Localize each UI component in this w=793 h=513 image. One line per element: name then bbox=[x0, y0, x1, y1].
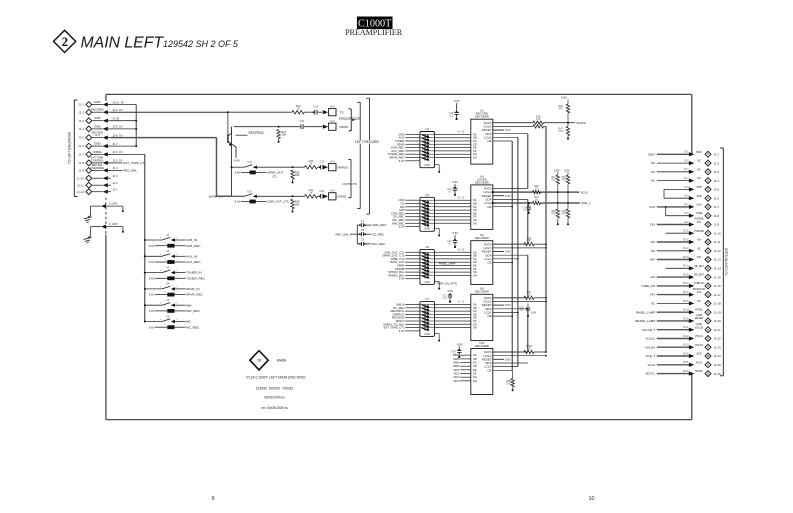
svg-text:15V: 15V bbox=[650, 223, 655, 227]
svg-text:J4-2: J4-2 bbox=[330, 120, 335, 123]
svg-text:J4-3: J4-3 bbox=[330, 190, 335, 193]
svg-text:J2-8 0V: J2-8 0V bbox=[112, 125, 123, 129]
svg-text:+5V: +5V bbox=[650, 240, 655, 244]
svg-text:C26: C26 bbox=[319, 189, 324, 193]
svg-text:5.6V: 5.6V bbox=[505, 357, 511, 361]
svg-text:SCLK: SCLK bbox=[647, 363, 655, 367]
svg-text:5.6V: 5.6V bbox=[457, 342, 463, 346]
svg-text:J1-2: J1-2 bbox=[714, 161, 720, 165]
svg-text:RECPROC: RECPROC bbox=[249, 131, 266, 135]
svg-text:0V 15: 0V 15 bbox=[458, 197, 465, 199]
svg-text:C7: C7 bbox=[361, 219, 365, 223]
svg-text:47K: 47K bbox=[552, 213, 557, 215]
svg-text:J9-13: J9-13 bbox=[683, 256, 690, 259]
svg-text:5.6V: 5.6V bbox=[505, 250, 511, 254]
svg-text:J1-7: J1-7 bbox=[714, 205, 720, 209]
svg-text:J1-25: J1-25 bbox=[714, 363, 722, 367]
svg-text:J1-9: J1-9 bbox=[78, 169, 84, 173]
svg-text:C24: C24 bbox=[314, 105, 319, 109]
svg-text:J1-3: J1-3 bbox=[78, 119, 84, 123]
svg-text:47K: 47K bbox=[559, 108, 564, 111]
svg-text:J1-11: J1-11 bbox=[714, 240, 721, 244]
svg-text:10K: 10K bbox=[506, 382, 511, 385]
svg-text:MC_REC: MC_REC bbox=[186, 325, 200, 329]
svg-text:24V: 24V bbox=[650, 258, 655, 262]
svg-text:J1-10: J1-10 bbox=[77, 176, 85, 180]
svg-text:5.6V: 5.6V bbox=[149, 260, 155, 264]
svg-text:J1-3: J1-3 bbox=[714, 170, 720, 174]
svg-text:J2-6 0V: J2-6 0V bbox=[112, 150, 123, 154]
svg-text:SOE_L: SOE_L bbox=[581, 201, 591, 205]
svg-text:1K: 1K bbox=[535, 199, 538, 202]
svg-text:J1-21: J1-21 bbox=[714, 328, 722, 332]
svg-text:J9-15: J9-15 bbox=[683, 274, 690, 277]
svg-text:SDATA: SDATA bbox=[576, 121, 586, 125]
svg-text:U1: U1 bbox=[425, 127, 429, 131]
svg-text:J1-4: J1-4 bbox=[78, 127, 84, 131]
svg-text:10K: 10K bbox=[295, 202, 300, 206]
svg-text:1K: 1K bbox=[527, 293, 530, 296]
svg-text:PREAMPLIFIER: PREAMPLIFIER bbox=[345, 28, 403, 37]
svg-text:NC: NC bbox=[697, 160, 701, 163]
svg-text:5.6V: 5.6V bbox=[399, 225, 405, 229]
svg-text:CTL: CTL bbox=[272, 175, 277, 179]
svg-text:FROM: FROM bbox=[339, 125, 348, 129]
svg-text:OVERRIDE: OVERRIDE bbox=[91, 166, 105, 170]
svg-text:5.6V: 5.6V bbox=[505, 194, 511, 198]
svg-text:J1-11: J1-11 bbox=[77, 183, 85, 187]
svg-text:SDATA: SDATA bbox=[695, 370, 703, 373]
svg-text:MW: MW bbox=[186, 303, 192, 307]
svg-text:J2-35: J2-35 bbox=[112, 117, 119, 121]
svg-text:J2-1: J2-1 bbox=[112, 188, 118, 192]
svg-text:RECORD: RECORD bbox=[91, 108, 104, 112]
svg-text:500V: 500V bbox=[648, 152, 655, 156]
svg-text:CD5_REC: CD5_REC bbox=[186, 244, 201, 248]
svg-text:5.6V: 5.6V bbox=[235, 200, 241, 204]
svg-text:1K: 1K bbox=[535, 188, 538, 191]
svg-text:CDR_REC: CDR_REC bbox=[372, 223, 387, 227]
svg-text:TO CONTROLLER: TO CONTROLLER bbox=[724, 247, 728, 276]
svg-text:5.6V: 5.6V bbox=[235, 171, 241, 175]
svg-text:SG: SG bbox=[473, 375, 477, 379]
svg-text:R38: R38 bbox=[536, 122, 541, 125]
svg-text:J1-9: J1-9 bbox=[714, 223, 720, 227]
svg-text:47K: 47K bbox=[552, 179, 557, 181]
svg-text:VOLCB_T: VOLCB_T bbox=[642, 328, 656, 332]
svg-text:J2-7: J2-7 bbox=[112, 142, 118, 146]
svg-text:rev 04/05/2005 ks: rev 04/05/2005 ks bbox=[261, 406, 288, 410]
svg-text:J1-17: J1-17 bbox=[714, 293, 722, 297]
svg-text:J9-3: J9-3 bbox=[684, 168, 689, 171]
svg-text:OUT: OUT bbox=[95, 133, 101, 137]
svg-text:NC: NC bbox=[697, 177, 701, 180]
svg-text:DECODER: DECODER bbox=[475, 290, 489, 294]
svg-text:U5: U5 bbox=[425, 245, 429, 249]
svg-text:5.6V: 5.6V bbox=[531, 312, 536, 315]
svg-text:J9-22: J9-22 bbox=[683, 335, 690, 338]
svg-text:0V 15: 0V 15 bbox=[458, 302, 465, 304]
svg-text:J9-10: J9-10 bbox=[683, 230, 690, 233]
svg-text:SH: SH bbox=[473, 273, 477, 277]
svg-text:47K: 47K bbox=[559, 130, 564, 133]
svg-text:C23: C23 bbox=[300, 119, 305, 123]
svg-text:J1-6: J1-6 bbox=[78, 144, 84, 148]
svg-text:J9-23: J9-23 bbox=[683, 344, 690, 347]
svg-text:CDR_OUT_CTL: CDR_OUT_CTL bbox=[267, 200, 289, 204]
svg-text:J1-15: J1-15 bbox=[714, 275, 722, 279]
svg-text:MAIN LEFT: MAIN LEFT bbox=[81, 34, 165, 51]
svg-text:METER_LAMP: METER_LAMP bbox=[635, 319, 655, 323]
svg-text:J9-20: J9-20 bbox=[683, 317, 690, 320]
svg-text:J9-11: J9-11 bbox=[683, 238, 689, 241]
svg-text:AUX_REC: AUX_REC bbox=[186, 260, 201, 264]
svg-text:1K: 1K bbox=[527, 240, 530, 243]
svg-text:5.6V: 5.6V bbox=[149, 293, 155, 297]
svg-text:J1-5: J1-5 bbox=[78, 136, 84, 140]
svg-text:5.6V: 5.6V bbox=[564, 168, 570, 172]
svg-text:PANEL_LAMP: PANEL_LAMP bbox=[439, 261, 456, 265]
svg-text:J9-1: J9-1 bbox=[684, 151, 689, 154]
svg-text:U7: U7 bbox=[425, 297, 429, 301]
svg-text:5.6V: 5.6V bbox=[454, 99, 460, 103]
svg-text:J1-2: J1-2 bbox=[78, 110, 84, 114]
svg-text:0V 15: 0V 15 bbox=[458, 132, 465, 134]
svg-text:GND: GND bbox=[424, 228, 430, 231]
svg-text:2B: 2B bbox=[257, 359, 262, 363]
svg-text:129542 09/1/00 T00081: 129542 09/1/00 T00081 bbox=[256, 387, 294, 391]
svg-text:J9-4: J9-4 bbox=[684, 177, 689, 180]
svg-text:J1-16: J1-16 bbox=[714, 284, 722, 288]
svg-text:J2-10 0V: J2-10 0V bbox=[112, 100, 124, 104]
svg-text:GND: GND bbox=[94, 100, 100, 104]
svg-text:SH: SH bbox=[473, 379, 477, 383]
svg-text:1K: 1K bbox=[309, 162, 312, 166]
svg-text:5.6V: 5.6V bbox=[234, 159, 240, 163]
svg-text:10K: 10K bbox=[281, 133, 286, 137]
svg-text:J9-16: J9-16 bbox=[683, 282, 690, 285]
svg-text:VOLCL: VOLCL bbox=[695, 335, 704, 338]
svg-text:J1-7: J1-7 bbox=[78, 153, 84, 157]
svg-text:CD_REC: CD_REC bbox=[372, 232, 385, 236]
svg-text:BD_DET: BD_DET bbox=[694, 274, 704, 277]
svg-text:5.6V: 5.6V bbox=[696, 204, 701, 207]
svg-text:TUNER_REC: TUNER_REC bbox=[186, 276, 206, 280]
svg-text:SCLK: SCLK bbox=[696, 361, 703, 364]
svg-text:J9-2: J9-2 bbox=[684, 160, 689, 163]
svg-text:J9-12: J9-12 bbox=[683, 247, 690, 250]
svg-text:J1-26: J1-26 bbox=[714, 372, 722, 376]
svg-text:SHB: SHB bbox=[696, 186, 701, 189]
svg-text:MC4: MC4 bbox=[454, 379, 460, 383]
svg-text:MAIN: MAIN bbox=[277, 358, 287, 362]
svg-text:K19: K19 bbox=[247, 161, 252, 164]
svg-text:P129 C1000T LEFT MAIN (RECORD): P129 C1000T LEFT MAIN (RECORD) bbox=[246, 376, 305, 380]
svg-text:J9-6: J9-6 bbox=[684, 195, 689, 198]
svg-text:5.6V: 5.6V bbox=[149, 309, 155, 313]
svg-text:J1-5: J1-5 bbox=[714, 188, 720, 192]
svg-text:J9-21: J9-21 bbox=[683, 326, 690, 329]
svg-text:0V 15: 0V 15 bbox=[458, 250, 465, 252]
svg-text:PROCESSOR: PROCESSOR bbox=[339, 117, 361, 121]
svg-text:+6V: +6V bbox=[650, 275, 655, 279]
svg-text:J2-8 0V: J2-8 0V bbox=[112, 133, 123, 137]
svg-text:U3: U3 bbox=[425, 193, 429, 197]
svg-text:GND: GND bbox=[94, 124, 100, 128]
svg-text:J1-18: J1-18 bbox=[714, 302, 722, 306]
svg-text:GND: GND bbox=[424, 164, 430, 167]
svg-text:J2-4: J2-4 bbox=[112, 166, 118, 170]
svg-text:SD: SD bbox=[473, 364, 477, 368]
svg-text:LEFT RECORD: LEFT RECORD bbox=[355, 140, 379, 144]
svg-text:J_GP1: J_GP1 bbox=[109, 202, 119, 206]
svg-text:SH: SH bbox=[473, 221, 477, 225]
svg-text:J9-8: J9-8 bbox=[684, 212, 689, 215]
svg-text:5.6V: 5.6V bbox=[149, 325, 155, 329]
svg-text:10: 10 bbox=[589, 496, 595, 502]
svg-text:OE: OE bbox=[487, 368, 491, 372]
svg-text:UNBAL: UNBAL bbox=[92, 150, 102, 154]
svg-text:SA: SA bbox=[473, 353, 477, 357]
svg-text:J9-9: J9-9 bbox=[684, 221, 689, 224]
svg-text:OE: OE bbox=[487, 314, 491, 318]
svg-text:SRVR_OUT: SRVR_OUT bbox=[267, 171, 283, 175]
svg-text:CONTROL: CONTROL bbox=[91, 158, 104, 162]
svg-text:15V: 15V bbox=[697, 221, 702, 224]
svg-text:DECODER: DECODER bbox=[475, 344, 489, 348]
svg-text:J1-8: J1-8 bbox=[78, 161, 84, 165]
svg-text:SB: SB bbox=[473, 357, 477, 361]
svg-text:SHB: SHB bbox=[696, 195, 701, 198]
svg-text:J9-14: J9-14 bbox=[683, 265, 690, 268]
svg-text:SF: SF bbox=[473, 372, 477, 376]
svg-text:J9-17: J9-17 bbox=[683, 291, 690, 294]
svg-text:5.6V: 5.6V bbox=[399, 159, 405, 163]
svg-text:9: 9 bbox=[212, 496, 215, 502]
svg-text:5.6V: 5.6V bbox=[149, 276, 155, 280]
svg-text:VOLCL: VOLCL bbox=[645, 337, 655, 341]
svg-text:TUNER_IN: TUNER_IN bbox=[186, 271, 201, 275]
svg-text:J1-1: J1-1 bbox=[714, 153, 720, 157]
svg-text:PWSNB: PWSNB bbox=[694, 230, 704, 233]
svg-text:1K: 1K bbox=[309, 191, 312, 195]
svg-text:OE: OE bbox=[487, 205, 491, 209]
svg-text:J1-8: J1-8 bbox=[714, 214, 720, 218]
svg-text:DIA_REC: DIA_REC bbox=[372, 242, 386, 246]
svg-text:K20: K20 bbox=[247, 190, 252, 193]
svg-text:EXT_TAPE_CTL: EXT_TAPE_CTL bbox=[124, 161, 147, 165]
svg-text:SCLK: SCLK bbox=[581, 190, 589, 194]
svg-text:SE: SE bbox=[473, 368, 477, 372]
svg-text:C9: C9 bbox=[361, 238, 365, 242]
svg-text:5.6V: 5.6V bbox=[399, 277, 405, 281]
svg-text:VOLDA: VOLDA bbox=[645, 345, 655, 349]
svg-text:J1-23: J1-23 bbox=[714, 345, 722, 349]
svg-text:TUBE ON: TUBE ON bbox=[694, 282, 705, 285]
svg-text:J4-4: J4-4 bbox=[330, 160, 335, 163]
svg-text:J1-22: J1-22 bbox=[714, 337, 722, 341]
svg-text:5.6V: 5.6V bbox=[453, 180, 459, 184]
svg-text:NC: NC bbox=[697, 247, 701, 250]
svg-text:SRVR(S): SRVR(S) bbox=[337, 165, 348, 169]
svg-text:PANEL: PANEL bbox=[695, 309, 703, 312]
svg-text:SDCTL: SDCTL bbox=[645, 372, 655, 376]
svg-text:SH: SH bbox=[473, 156, 477, 160]
svg-text:AUX_IN: AUX_IN bbox=[186, 254, 197, 258]
svg-text:GND: GND bbox=[424, 281, 430, 284]
svg-text:J1-19: J1-19 bbox=[714, 310, 722, 314]
svg-text:J_GP2: J_GP2 bbox=[109, 222, 119, 226]
svg-text:VOLDA: VOLDA bbox=[695, 344, 704, 347]
svg-text:J2-2: J2-2 bbox=[112, 181, 118, 185]
svg-text:5.6V: 5.6V bbox=[561, 95, 567, 99]
svg-text:24V: 24V bbox=[697, 291, 702, 294]
svg-text:OE: OE bbox=[487, 261, 491, 265]
svg-text:J9-24: J9-24 bbox=[683, 352, 690, 355]
svg-text:J9-18: J9-18 bbox=[683, 300, 690, 303]
svg-text:5.6V: 5.6V bbox=[149, 244, 155, 248]
svg-text:J2-3: J2-3 bbox=[112, 174, 118, 178]
svg-text:5.6V: 5.6V bbox=[448, 289, 454, 293]
svg-text:J1-12: J1-12 bbox=[77, 190, 85, 194]
svg-text:OUTPUTS: OUTPUTS bbox=[343, 182, 357, 186]
svg-text:J1-14: J1-14 bbox=[714, 267, 722, 271]
svg-text:TUBE_ON: TUBE_ON bbox=[641, 284, 655, 288]
svg-text:VOLCB: VOLCB bbox=[695, 326, 704, 329]
svg-text:1K: 1K bbox=[527, 348, 530, 351]
svg-text:J1-1: J1-1 bbox=[78, 103, 84, 107]
svg-text:C25: C25 bbox=[319, 160, 324, 164]
svg-text:5.6V: 5.6V bbox=[505, 128, 511, 132]
svg-text:SCE_T: SCE_T bbox=[646, 354, 656, 358]
svg-text:TO LEFT BALANCED: TO LEFT BALANCED bbox=[68, 131, 72, 164]
svg-text:J2-9 0V: J2-9 0V bbox=[112, 108, 123, 112]
svg-text:J2-5 0V: J2-5 0V bbox=[112, 159, 123, 163]
svg-text:24V: 24V bbox=[650, 293, 655, 297]
svg-text:08/29/2004 ks: 08/29/2004 ks bbox=[264, 396, 285, 400]
svg-text:J9-5: J9-5 bbox=[684, 186, 689, 189]
svg-text:PWR_ON_ATTN: PWR_ON_ATTN bbox=[437, 282, 457, 286]
svg-text:J1-13: J1-13 bbox=[714, 258, 722, 262]
svg-text:GND: GND bbox=[94, 116, 100, 120]
svg-text:5.6V: 5.6V bbox=[453, 231, 459, 235]
svg-text:24V: 24V bbox=[697, 256, 702, 259]
svg-text:500V: 500V bbox=[696, 151, 702, 154]
svg-text:GND: GND bbox=[94, 142, 100, 146]
svg-text:47K: 47K bbox=[562, 179, 567, 181]
svg-text:129542 SH 2 OF 5: 129542 SH 2 OF 5 bbox=[163, 39, 239, 49]
svg-text:GND: GND bbox=[424, 333, 430, 336]
svg-text:J4-5: J4-5 bbox=[330, 105, 335, 108]
svg-text:J9-19: J9-19 bbox=[683, 309, 690, 312]
svg-text:OE: OE bbox=[487, 139, 491, 143]
svg-text:METER: METER bbox=[695, 317, 704, 320]
svg-text:+5V: +5V bbox=[697, 239, 702, 242]
svg-text:47K: 47K bbox=[562, 213, 567, 215]
svg-text:J9-25: J9-25 bbox=[683, 361, 690, 364]
svg-text:CD5_IN: CD5_IN bbox=[186, 238, 197, 242]
svg-text:2: 2 bbox=[62, 35, 68, 49]
svg-text:CDR(S): CDR(S) bbox=[337, 195, 346, 199]
svg-text:J1-12: J1-12 bbox=[714, 249, 722, 253]
svg-text:SC: SC bbox=[473, 361, 477, 365]
svg-text:5.6V: 5.6V bbox=[399, 329, 405, 333]
svg-text:SH: SH bbox=[473, 326, 477, 330]
svg-text:J1-4: J1-4 bbox=[714, 179, 720, 183]
svg-text:5.6V: 5.6V bbox=[505, 303, 511, 307]
svg-text:J1-6: J1-6 bbox=[714, 196, 720, 200]
svg-text:J9-7: J9-7 bbox=[684, 203, 689, 206]
svg-text:SCE: SCE bbox=[696, 353, 701, 356]
svg-text:5.6V: 5.6V bbox=[554, 168, 560, 172]
svg-text:10K: 10K bbox=[295, 173, 300, 177]
svg-text:DECODER: DECODER bbox=[475, 236, 489, 240]
svg-text:SRVR_REC: SRVR_REC bbox=[186, 293, 204, 297]
svg-text:SB_DET: SB_DET bbox=[694, 265, 704, 268]
svg-text:PANEL_LAMP: PANEL_LAMP bbox=[636, 310, 655, 314]
svg-text:NC: NC bbox=[697, 168, 701, 171]
svg-text:NC: NC bbox=[697, 300, 701, 303]
svg-text:REC_BAL: REC_BAL bbox=[336, 232, 350, 236]
svg-text:J1-20: J1-20 bbox=[714, 319, 722, 323]
svg-text:MW_REC: MW_REC bbox=[186, 309, 201, 313]
svg-text:DECODER: DECODER bbox=[475, 115, 489, 119]
svg-text:5.6V: 5.6V bbox=[649, 205, 655, 209]
svg-text:SRVR_IN: SRVR_IN bbox=[186, 287, 199, 291]
svg-text:J9-26: J9-26 bbox=[683, 370, 690, 373]
svg-text:MC: MC bbox=[186, 320, 192, 324]
svg-text:REC_BAL: REC_BAL bbox=[124, 168, 138, 172]
svg-text:TUBE: TUBE bbox=[696, 212, 703, 215]
svg-text:1K: 1K bbox=[297, 106, 300, 110]
svg-text:DECODER: DECODER bbox=[475, 180, 489, 184]
svg-text:J1-10: J1-10 bbox=[714, 231, 722, 235]
svg-text:C8: C8 bbox=[361, 228, 365, 232]
svg-text:J1-24: J1-24 bbox=[714, 354, 722, 358]
